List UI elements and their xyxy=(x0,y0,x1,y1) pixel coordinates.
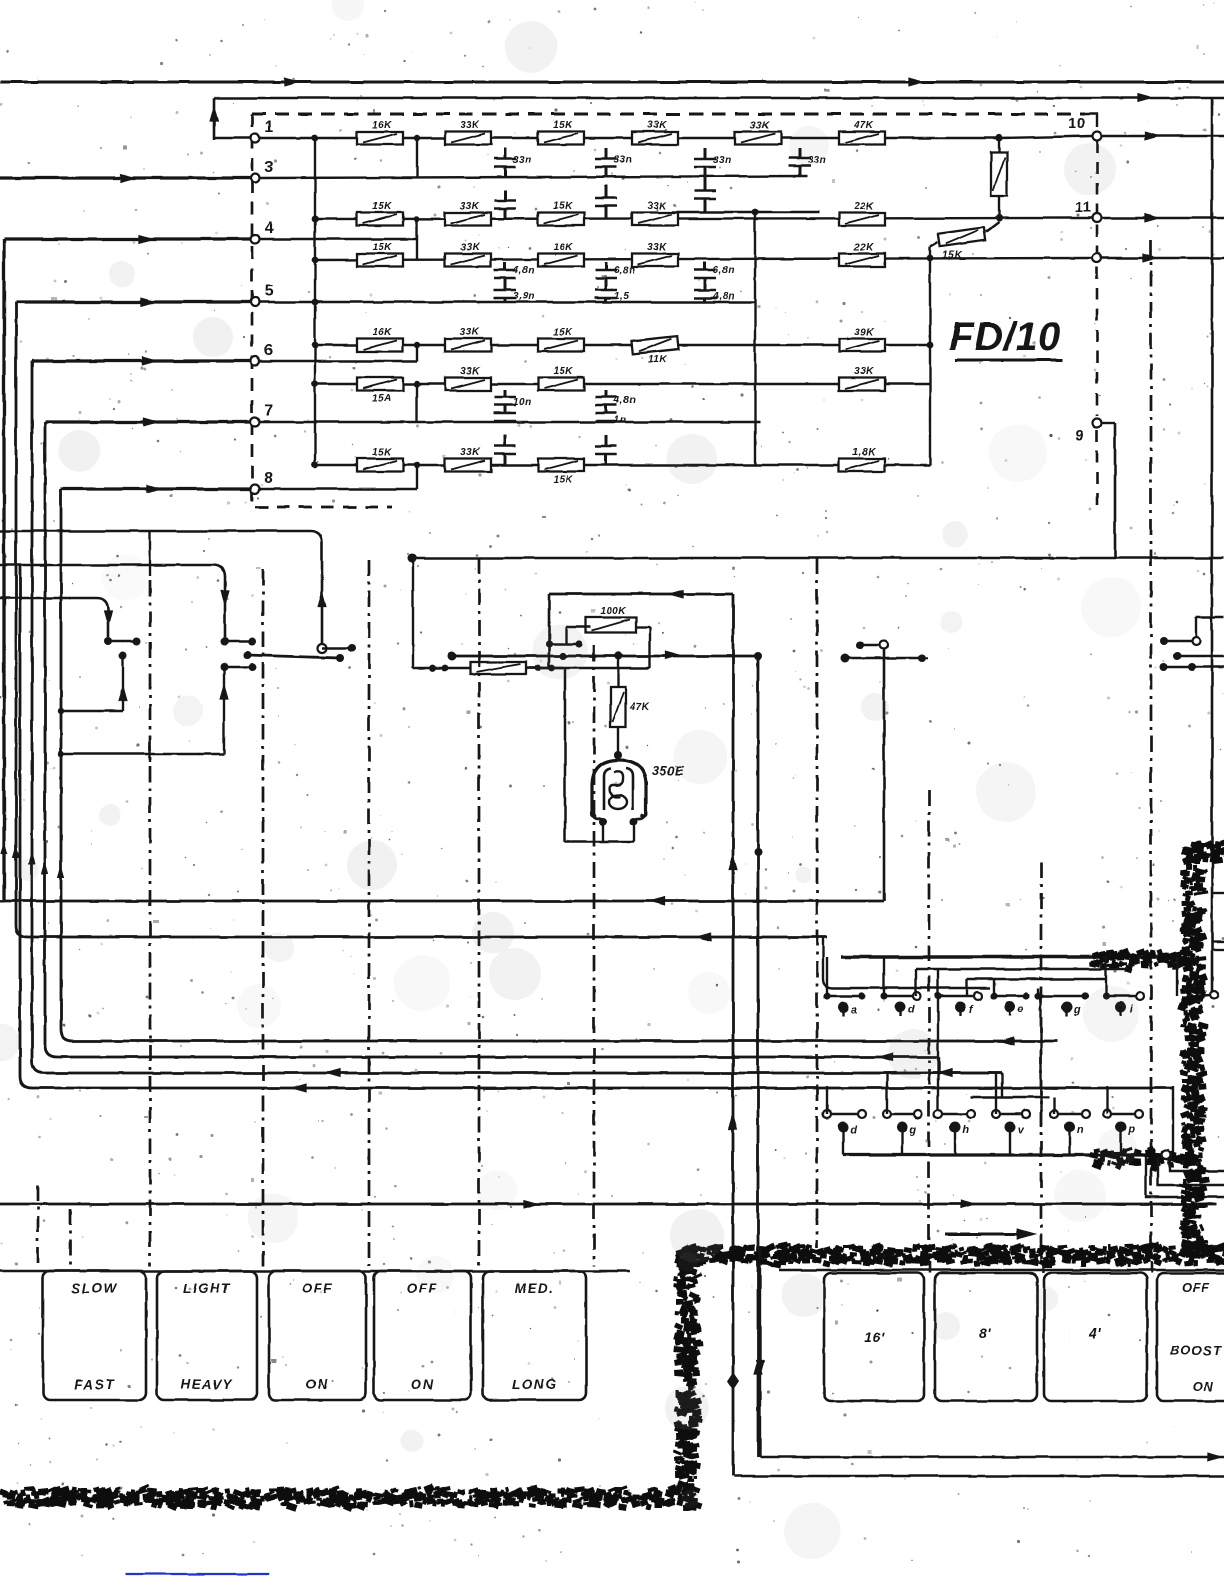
svg-text:10: 10 xyxy=(1068,115,1086,132)
svg-text:100K: 100K xyxy=(600,606,626,617)
svg-text:OFF: OFF xyxy=(1182,1280,1211,1295)
svg-text:33K: 33K xyxy=(750,120,770,131)
svg-text:n: n xyxy=(1077,1124,1084,1136)
svg-text:ON: ON xyxy=(411,1377,434,1392)
svg-text:4,8n: 4,8n xyxy=(712,291,735,302)
svg-text:33K: 33K xyxy=(854,366,874,377)
svg-text:MED.: MED. xyxy=(515,1281,555,1296)
svg-text:33K: 33K xyxy=(460,242,480,253)
svg-text:e: e xyxy=(1018,1004,1025,1016)
svg-text:15K: 15K xyxy=(553,366,573,377)
svg-text:4,8n: 4,8n xyxy=(613,395,636,406)
svg-text:8: 8 xyxy=(264,470,273,487)
svg-text:SLOW: SLOW xyxy=(71,1281,118,1296)
svg-text:15K: 15K xyxy=(553,475,573,486)
svg-text:22K: 22K xyxy=(853,201,874,212)
svg-text:g: g xyxy=(1073,1004,1081,1016)
svg-text:15K: 15K xyxy=(372,201,392,212)
svg-text:15A: 15A xyxy=(372,394,392,405)
svg-text:1n: 1n xyxy=(614,415,627,426)
svg-text:16': 16' xyxy=(864,1329,885,1345)
svg-text:47K: 47K xyxy=(629,702,650,713)
svg-text:4,8n: 4,8n xyxy=(512,265,535,276)
svg-text:11: 11 xyxy=(1075,199,1092,216)
svg-text:15K: 15K xyxy=(553,120,573,131)
svg-text:1: 1 xyxy=(264,119,273,136)
svg-text:h: h xyxy=(962,1124,969,1136)
svg-text:OFF: OFF xyxy=(302,1281,334,1296)
svg-text:4': 4' xyxy=(1088,1325,1101,1341)
svg-text:1,8K: 1,8K xyxy=(852,447,875,458)
svg-text:9: 9 xyxy=(1076,427,1085,444)
svg-text:·: · xyxy=(876,1303,881,1318)
svg-text:6,8n: 6,8n xyxy=(713,265,735,276)
svg-text:22K: 22K xyxy=(853,242,874,253)
svg-text:16K: 16K xyxy=(372,120,392,131)
svg-text:8': 8' xyxy=(979,1325,991,1341)
svg-text:4: 4 xyxy=(264,220,273,237)
svg-text:FAST: FAST xyxy=(74,1377,115,1392)
svg-text:15K: 15K xyxy=(553,327,573,338)
svg-text:33K: 33K xyxy=(460,447,480,458)
svg-text:a: a xyxy=(851,1004,858,1016)
svg-text:33K: 33K xyxy=(647,120,667,131)
svg-text:15K: 15K xyxy=(942,250,962,261)
svg-text:10n: 10n xyxy=(513,397,532,408)
svg-text:v: v xyxy=(1018,1124,1025,1136)
svg-text:33K: 33K xyxy=(647,242,667,253)
svg-text:3,9n: 3,9n xyxy=(513,291,535,302)
svg-text:FD/10: FD/10 xyxy=(949,315,1060,359)
svg-text:16K: 16K xyxy=(553,242,573,253)
svg-text:HEAVY: HEAVY xyxy=(180,1377,234,1392)
svg-text:39K: 39K xyxy=(854,327,874,338)
svg-text:7: 7 xyxy=(264,403,273,420)
svg-text:33n: 33n xyxy=(614,155,633,166)
svg-text:11K: 11K xyxy=(647,355,666,366)
svg-text:d: d xyxy=(907,1004,914,1016)
svg-text:33K: 33K xyxy=(460,120,480,131)
svg-text:33K: 33K xyxy=(460,366,480,377)
svg-text:33K: 33K xyxy=(460,201,480,212)
svg-text:33K: 33K xyxy=(460,327,480,338)
svg-text:3: 3 xyxy=(264,159,273,176)
svg-text:5: 5 xyxy=(264,283,273,300)
svg-text:16K: 16K xyxy=(372,327,392,338)
svg-text:33n: 33n xyxy=(713,155,732,166)
svg-text:15K: 15K xyxy=(372,242,392,253)
svg-text:47K: 47K xyxy=(853,120,874,131)
svg-text:6,8n: 6,8n xyxy=(614,265,636,276)
svg-text:6: 6 xyxy=(264,342,273,359)
svg-text:g: g xyxy=(908,1124,916,1136)
svg-text:1,5: 1,5 xyxy=(614,291,629,302)
svg-text:15K: 15K xyxy=(372,447,392,458)
svg-text:ON: ON xyxy=(1192,1379,1214,1394)
svg-text:15K: 15K xyxy=(553,201,573,212)
svg-text:LONG: LONG xyxy=(512,1377,557,1392)
svg-text:ON: ON xyxy=(306,1377,329,1392)
svg-text:33n: 33n xyxy=(513,155,532,166)
svg-text:BOOST: BOOST xyxy=(1170,1343,1221,1358)
svg-text:d: d xyxy=(850,1124,857,1136)
